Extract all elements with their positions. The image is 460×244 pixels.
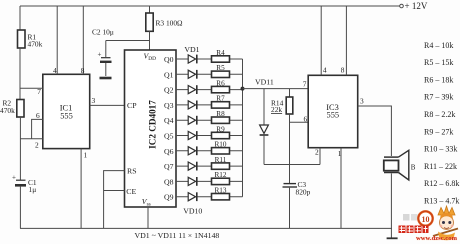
- wire IC2 RS/CE to ground: [104, 171, 125, 229]
- wire ladder tap to IC3 pin7: [243, 88, 309, 90]
- svg-text:CP: CP: [127, 101, 137, 110]
- wire +12V top bus: [20, 5, 400, 7]
- svg-text:VD1: VD1: [184, 45, 199, 54]
- svg-text:10: 10: [422, 215, 430, 224]
- svg-text:www.dzsc.com: www.dzsc.com: [416, 235, 458, 242]
- resistor R14: [271, 89, 293, 165]
- svg-text:R13 – 4.7k: R13 – 4.7k: [424, 197, 459, 206]
- svg-text:Q6: Q6: [164, 147, 174, 156]
- wire IC3 pin3 to speaker: [358, 106, 392, 156]
- svg-text:2: 2: [315, 148, 319, 157]
- diode VD9: [188, 177, 197, 186]
- watermark mascot: [433, 206, 458, 240]
- svg-text:1: 1: [338, 149, 342, 158]
- capacitor C1: [12, 174, 37, 195]
- wire left rail top (+12V to R1): [19, 6, 21, 30]
- svg-text:R7: R7: [216, 95, 225, 103]
- resistor R13: [212, 187, 230, 200]
- svg-text:R6 – 18k: R6 – 18k: [424, 75, 453, 84]
- svg-text:+: +: [12, 174, 16, 182]
- svg-text:VD11: VD11: [255, 78, 274, 87]
- wire IC2 Q7 output: [176, 165, 243, 167]
- wire IC1 pin4 to +12V: [56, 6, 58, 74]
- svg-text:3: 3: [360, 96, 364, 105]
- capacitor C2: [92, 28, 114, 79]
- diode VD7: [188, 146, 197, 155]
- svg-text:R4 – 10k: R4 – 10k: [424, 41, 453, 50]
- wire left rail C1 to ground bus: [19, 187, 21, 229]
- resistor R9: [212, 125, 230, 138]
- node +12V terminal: [400, 4, 404, 8]
- svg-text:R4: R4: [216, 49, 225, 57]
- wire IC2 Q9 output: [176, 196, 243, 198]
- svg-text:2: 2: [35, 141, 39, 150]
- diode VD4: [188, 101, 197, 110]
- svg-text:R3 100Ω: R3 100Ω: [156, 19, 184, 28]
- svg-text:Q1: Q1: [164, 70, 174, 79]
- svg-text:R13: R13: [215, 187, 227, 195]
- svg-text:Q0: Q0: [164, 55, 174, 64]
- svg-text:R8 – 2.2k: R8 – 2.2k: [424, 110, 455, 119]
- svg-text:R7 – 39k: R7 – 39k: [424, 93, 453, 102]
- diode VD8: [188, 162, 197, 171]
- svg-text:R9 – 27k: R9 – 27k: [424, 127, 453, 136]
- svg-text:6: 6: [304, 114, 308, 123]
- svg-text:+ 12V: + 12V: [405, 1, 428, 11]
- svg-text:R5: R5: [216, 64, 225, 72]
- op-amp U2: IC2 CD4017 box: [125, 50, 177, 207]
- svg-text:Q5: Q5: [164, 132, 174, 141]
- svg-text:VD10: VD10: [183, 207, 202, 216]
- svg-text:R11: R11: [215, 156, 227, 164]
- wire IC1 pin3 to IC2 CP: [90, 104, 125, 106]
- svg-text:4: 4: [323, 66, 327, 75]
- svg-text:7: 7: [37, 87, 41, 96]
- svg-text:+: +: [98, 51, 102, 59]
- svg-text:470k: 470k: [28, 40, 43, 49]
- diode VD11: [260, 89, 269, 165]
- svg-text:Q8: Q8: [164, 177, 174, 186]
- wire IC1 pin2 to rail: [20, 138, 43, 140]
- svg-text:Q4: Q4: [164, 116, 174, 125]
- svg-text:8: 8: [81, 66, 85, 75]
- resistor R4: [212, 49, 230, 62]
- svg-text:R10 – 33k: R10 – 33k: [424, 145, 457, 154]
- svg-text:3: 3: [92, 96, 96, 105]
- svg-text:Q7: Q7: [164, 162, 174, 171]
- resistor R10: [212, 141, 230, 154]
- speaker B: [384, 150, 416, 180]
- svg-text:R6: R6: [216, 79, 225, 87]
- wire IC1 pin6 jumper: [32, 119, 43, 138]
- wire left rail R1 to R2: [19, 48, 21, 100]
- svg-text:555: 555: [60, 112, 73, 121]
- wire IC1 pin1 to ground: [80, 149, 82, 229]
- svg-text:R11 – 22k: R11 – 22k: [424, 162, 457, 171]
- resistor R2: [0, 99, 24, 118]
- wire IC1 pin7 to R1/R2 junction: [20, 87, 43, 89]
- svg-text:C2 10μ: C2 10μ: [92, 28, 114, 37]
- wire IC2 Q4 output: [176, 119, 243, 121]
- svg-text:6: 6: [36, 111, 40, 120]
- svg-text:8: 8: [341, 66, 345, 75]
- wire IC2 Q1 output: [176, 73, 243, 75]
- wire IC2 Vss to ground: [147, 207, 149, 228]
- svg-text:470k: 470k: [0, 106, 15, 115]
- watermark faint text: [403, 214, 418, 221]
- wire IC2 Q3 output: [176, 104, 243, 106]
- svg-text:R8: R8: [216, 110, 225, 118]
- wire R3 to IC2 Vdd: [149, 31, 151, 50]
- wire left rail R2 to C1: [19, 117, 21, 180]
- wire IC3 pin4 to +12V: [320, 6, 322, 75]
- ground bar speaker: [387, 237, 398, 239]
- svg-text:Q9: Q9: [164, 193, 174, 202]
- resistor R7: [212, 95, 230, 108]
- svg-text:4: 4: [53, 66, 57, 75]
- resistor R5: [212, 64, 230, 77]
- node junction dot ladder bus tap: [241, 87, 245, 91]
- svg-text:1: 1: [84, 151, 88, 160]
- svg-text:VD1 ~ VD11 11 × 1N4148: VD1 ~ VD11 11 × 1N4148: [135, 231, 220, 240]
- diode VD3: [188, 85, 197, 94]
- wire IC3 pin8 to +12V: [345, 6, 347, 75]
- resistor R11: [212, 156, 230, 169]
- watermark text weiku: [399, 226, 429, 234]
- wire IC2 Q2 output: [176, 89, 243, 91]
- svg-text:R5 – 15k: R5 – 15k: [424, 58, 453, 67]
- svg-text:R12: R12: [215, 171, 227, 179]
- svg-text:22k: 22k: [271, 105, 282, 114]
- svg-text:R9: R9: [216, 125, 225, 133]
- resistor R1: [18, 30, 43, 49]
- wire C2 to R3 column: [106, 40, 150, 42]
- wire IC2 Q5 output: [176, 135, 243, 137]
- svg-text:RS: RS: [127, 167, 137, 176]
- wire IC3 pin2: [319, 148, 321, 165]
- wire IC2 Q8 output: [176, 180, 243, 182]
- wire IC1 pin8 to +12V: [82, 6, 84, 74]
- wire IC3 pin1 to ground: [340, 148, 342, 229]
- wire IC2 Q6 output: [176, 150, 243, 152]
- svg-text:R10: R10: [215, 141, 227, 149]
- watermark red badge: [418, 211, 432, 225]
- svg-text:IC2 CD4017: IC2 CD4017: [148, 100, 158, 149]
- diode VD2: [188, 70, 197, 79]
- resistor R12: [212, 171, 230, 184]
- wire ladder output bus: [242, 59, 244, 197]
- wire bottom ground bus: [20, 227, 392, 229]
- svg-text:7: 7: [303, 80, 307, 89]
- diode VD5: [188, 116, 197, 125]
- op-amp U1: IC1 555 timer box: [43, 74, 90, 148]
- diode VD1: [188, 55, 197, 64]
- wire threshold node (pin2): [264, 164, 320, 166]
- capacitor C3: [283, 165, 311, 229]
- svg-text:B: B: [411, 163, 416, 171]
- resistor R8: [212, 110, 230, 123]
- diode VD6: [188, 131, 197, 140]
- svg-text:820p: 820p: [296, 188, 311, 197]
- wire speaker to ground: [390, 173, 392, 238]
- op-amp U3: IC3 555 timer box: [308, 75, 358, 147]
- wire IC2 Q0 output: [176, 58, 243, 60]
- resistor R3: [146, 6, 183, 31]
- svg-text:R12 – 6.8k: R12 – 6.8k: [424, 179, 459, 188]
- svg-text:1μ: 1μ: [29, 185, 37, 194]
- svg-text:555: 555: [327, 110, 340, 119]
- svg-text:CE: CE: [126, 187, 136, 196]
- wire R14 to IC3 pin6: [290, 121, 309, 123]
- svg-text:Q3: Q3: [164, 101, 174, 110]
- diode VD10: [188, 192, 197, 201]
- resistor R6: [212, 79, 230, 92]
- svg-text:Q2: Q2: [164, 86, 174, 95]
